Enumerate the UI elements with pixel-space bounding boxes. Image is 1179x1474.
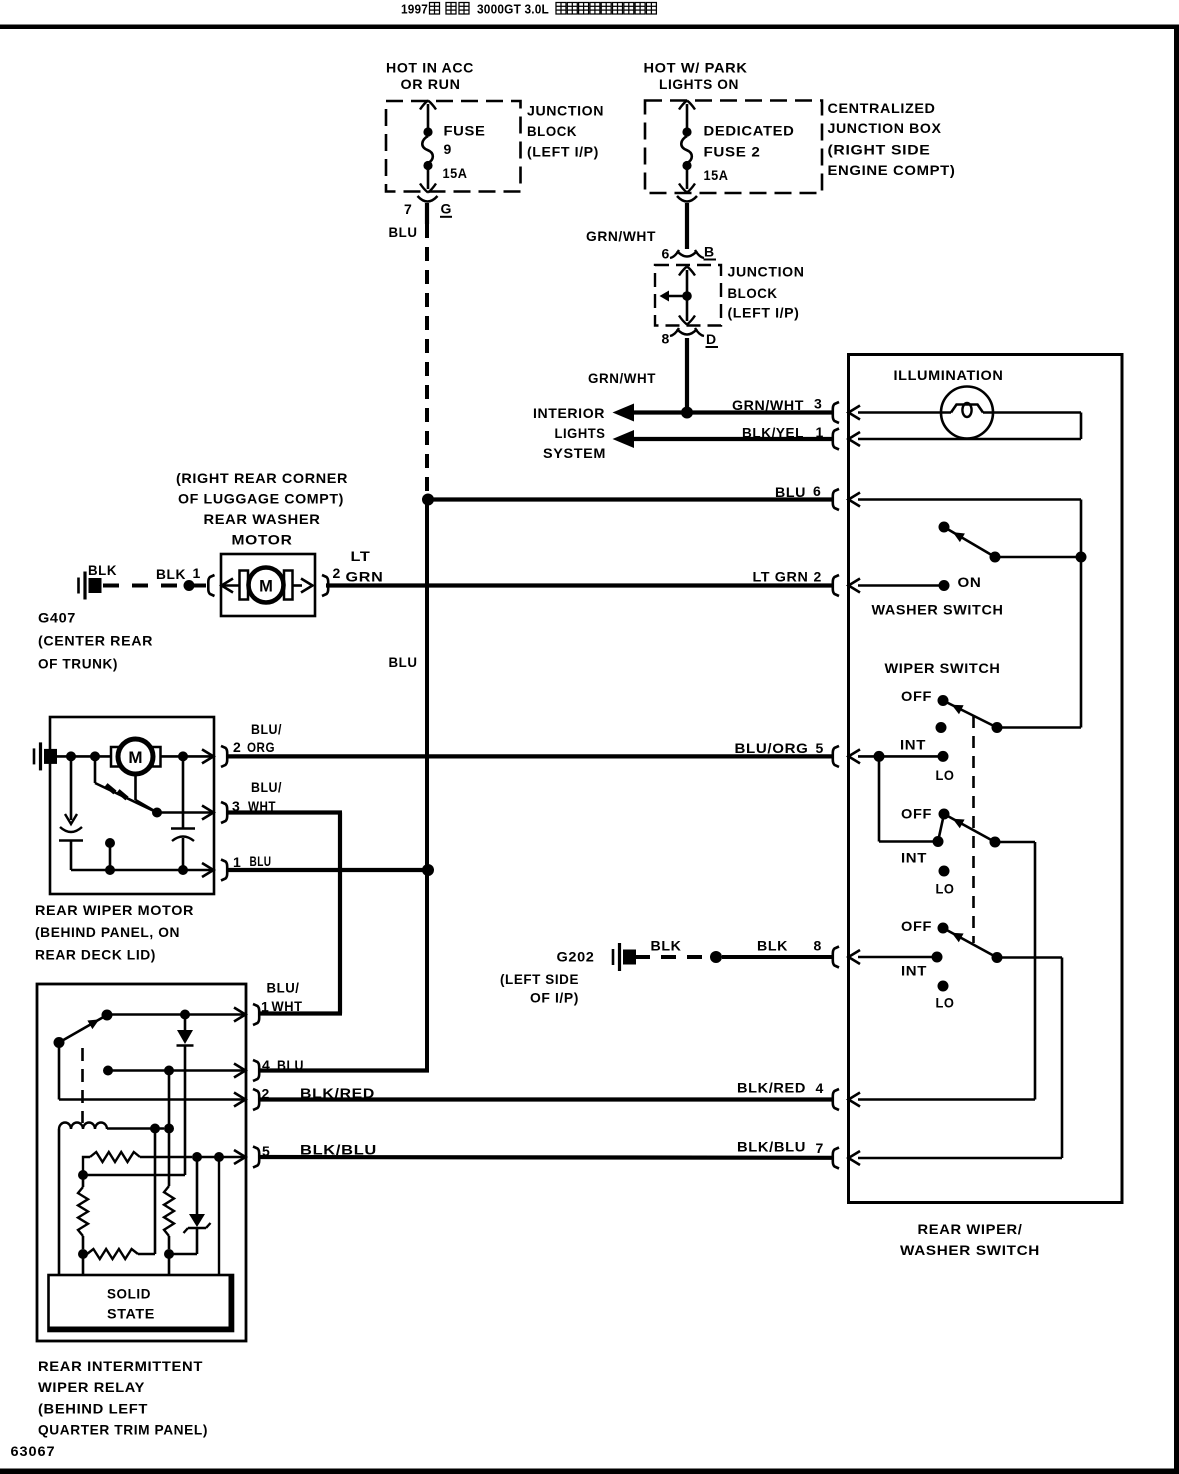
label MOTOR — [232, 532, 293, 548]
svg-text:INT: INT — [900, 737, 926, 753]
svg-text:BLK/RED: BLK/RED — [737, 1080, 806, 1096]
svg-text:BLU: BLU — [250, 853, 272, 869]
label LEFT SIDE — [500, 971, 579, 987]
wire pin 7 internal — [858, 1157, 1062, 1160]
wire gang2 common lead — [995, 841, 1035, 844]
svg-text:ILLUMINATION: ILLUMINATION — [894, 367, 1004, 383]
node gang2 common — [990, 837, 1001, 848]
label WIPER RELAY — [38, 1379, 145, 1395]
rear wiper motor box — [50, 717, 214, 894]
wire gang1 common lead — [997, 726, 1081, 729]
label ENGINE COMPT — [828, 162, 956, 178]
label terminal B — [704, 244, 717, 260]
wiper switch gang 1 lever — [943, 701, 997, 728]
label LIGHTS — [555, 425, 606, 441]
node coil right 2 — [164, 1124, 174, 1134]
label GRN/WHT upper — [586, 228, 656, 244]
svg-text:3000GT 3.0L: 3000GT 3.0L — [477, 2, 549, 17]
wire pin5 drop horizontal — [879, 840, 938, 843]
wire motor bottom rail — [71, 869, 214, 872]
label INT 3 — [901, 963, 927, 979]
svg-text:MOTOR: MOTOR — [232, 532, 293, 548]
arrow to interior lights 1 — [613, 404, 635, 422]
label OFF 2 — [901, 805, 932, 821]
node R3 bottom — [78, 1249, 88, 1259]
washer motor brushes — [240, 571, 293, 600]
svg-text:JUNCTION BOX: JUNCTION BOX — [828, 120, 942, 136]
lamp ILLUMINATION bulb — [858, 387, 1081, 439]
wire BLK solid stub — [194, 584, 206, 588]
svg-text:REAR DECK LID): REAR DECK LID) — [35, 947, 156, 963]
connector switch pin 5 — [833, 746, 860, 767]
motor right cam contact — [171, 756, 195, 870]
svg-text:LO: LO — [936, 881, 955, 897]
label REAR DECK LID — [35, 947, 156, 963]
connector motor pin 1 — [202, 860, 227, 881]
node washer common — [990, 552, 1001, 563]
washer switch lever — [944, 527, 995, 557]
wire BLU/WHT vertical — [338, 813, 342, 1014]
label CENTER REAR — [38, 633, 153, 649]
label RIGHT REAR CORNER — [176, 470, 348, 486]
diode D1 — [177, 1015, 194, 1176]
node washer bus junction — [1076, 552, 1087, 563]
wire R3 to solid state — [82, 1254, 85, 1275]
label OFF 1 — [901, 688, 932, 704]
fuse dedicated fuse 2 15A — [679, 101, 695, 193]
wire BLK dashed G407 — [103, 584, 184, 588]
wire coil tap vertical — [154, 1129, 157, 1255]
wire relay pin1 internal — [107, 1013, 245, 1016]
label BLU/ORG 5 — [735, 740, 824, 756]
node gang2 INT — [933, 836, 944, 847]
wire LT GRN — [326, 583, 833, 587]
svg-text:G407: G407 — [38, 610, 76, 626]
label WASHER SWITCH 2 — [900, 1242, 1040, 1258]
svg-text:DEDICATED: DEDICATED — [704, 123, 795, 139]
wire washer bus lower — [1080, 557, 1083, 728]
label JUNCTION 2 — [728, 263, 805, 279]
svg-text:2: 2 — [814, 569, 822, 585]
svg-text:REAR WIPER/: REAR WIPER/ — [918, 1221, 1023, 1237]
wire relay pivot drop — [58, 1043, 61, 1100]
svg-text:ON: ON — [958, 574, 982, 590]
svg-text:REAR INTERMITTENT: REAR INTERMITTENT — [38, 1358, 203, 1374]
node relay pin4 left — [103, 1066, 113, 1076]
wire BLU/WHT relay segment — [258, 1011, 342, 1015]
label JUNCTION BOX — [828, 120, 942, 136]
svg-text:BLK: BLK — [757, 938, 788, 954]
svg-text:QUARTER TRIM PANEL): QUARTER TRIM PANEL) — [38, 1422, 208, 1438]
resistor R2 vertical — [164, 1129, 174, 1250]
node gang1 common — [992, 722, 1003, 733]
label BLU 6 — [775, 483, 821, 500]
label STATE — [107, 1306, 155, 1322]
svg-text:INT: INT — [901, 963, 927, 979]
svg-text:G: G — [441, 201, 453, 217]
wire BLK/RED — [258, 1097, 833, 1101]
label SYSTEM — [543, 445, 606, 461]
connector relay pin 1 — [234, 1004, 259, 1025]
connector motor pin 3 — [202, 802, 227, 823]
connector switch pin 2 — [833, 575, 860, 596]
connector G below fuse 1 — [418, 196, 438, 202]
zener diode D2 — [184, 1157, 211, 1254]
svg-text:FUSE: FUSE — [444, 123, 486, 139]
svg-text:FUSE 2: FUSE 2 — [704, 143, 761, 159]
label OF LUGGAGE COMPT — [178, 491, 344, 507]
svg-text:BLU/: BLU/ — [251, 779, 282, 795]
wire BLU solid stub below fuse 1 — [425, 203, 429, 224]
svg-text:LIGHTS: LIGHTS — [555, 425, 606, 441]
wire washer common — [999, 556, 1081, 559]
label BEHIND LEFT — [38, 1401, 148, 1417]
label 15A right — [704, 167, 729, 183]
wire pin5 drop — [878, 756, 881, 841]
wire BLK 8 — [722, 955, 833, 959]
label BLU/ORG motor — [233, 721, 282, 755]
junction block 2 internal arrows and tap — [660, 267, 696, 325]
label GRN/WHT 3 — [732, 396, 822, 413]
svg-text:(RIGHT REAR CORNER: (RIGHT REAR CORNER — [176, 470, 348, 486]
border frame bottom bar — [0, 1469, 1179, 1474]
wire BLK/YEL 1 feed — [632, 437, 833, 441]
svg-text:HOT IN ACC: HOT IN ACC — [386, 60, 474, 76]
junction block 1 dashed box — [386, 101, 521, 192]
border frame right bar — [1174, 25, 1179, 1474]
svg-text:3: 3 — [814, 396, 822, 412]
label JUNCTION — [527, 103, 604, 119]
motor left cam contact — [59, 756, 83, 870]
label BLOCK 2 — [728, 285, 778, 301]
svg-text:BLK: BLK — [156, 566, 186, 582]
svg-text:JUNCTION: JUNCTION — [527, 103, 604, 119]
label OFF 3 — [901, 918, 932, 934]
svg-text:WASHER SWITCH: WASHER SWITCH — [900, 1242, 1040, 1258]
label LO 2 — [936, 881, 955, 897]
label HOT W/ PARK — [644, 60, 748, 76]
svg-text:SYSTEM: SYSTEM — [543, 445, 606, 461]
label ON — [958, 574, 982, 590]
svg-text:OFF: OFF — [901, 688, 932, 704]
label 15A — [443, 165, 468, 181]
motor park lever — [95, 783, 157, 813]
node gang3 common — [992, 952, 1003, 963]
connector D — [670, 328, 704, 336]
label LIGHTS ON — [659, 76, 739, 92]
relay lever — [59, 1015, 107, 1043]
park contact stub — [105, 838, 115, 870]
wire gang3 drop — [1061, 958, 1064, 1159]
node pin5 tap — [214, 1152, 224, 1162]
label LT GRN 2 right — [753, 569, 822, 585]
node rail dot 1 — [105, 865, 115, 875]
svg-text:(LEFT SIDE: (LEFT SIDE — [500, 971, 579, 987]
node GRN/WHT junction — [681, 407, 693, 419]
label pin 8 — [662, 331, 670, 347]
svg-text:M: M — [259, 578, 273, 596]
resistor R3 left vertical — [78, 1175, 88, 1249]
label BLU mid — [389, 654, 418, 670]
svg-text:INT: INT — [901, 850, 927, 866]
svg-text:LO: LO — [936, 767, 955, 783]
label G202 — [557, 949, 595, 965]
centralized junction box dashed box — [645, 101, 822, 194]
svg-text:BLU/: BLU/ — [251, 721, 282, 737]
wire lamp return to pin 1 — [858, 438, 1081, 441]
svg-text:ORG: ORG — [247, 739, 275, 755]
border frame top bar — [0, 25, 1179, 30]
label terminal D — [706, 331, 719, 347]
node zener top — [192, 1152, 202, 1162]
ground G202 — [613, 943, 636, 971]
node motor feed 1 — [66, 751, 76, 761]
wire pin4 to coil — [168, 1071, 171, 1129]
label 63067 — [11, 1443, 56, 1459]
label OF I/P — [530, 990, 579, 1006]
wire park to pin3 — [157, 811, 214, 814]
node gang3 INT — [932, 952, 943, 963]
svg-text:1: 1 — [193, 565, 201, 581]
connector relay pin 2 — [234, 1089, 259, 1110]
svg-text:7: 7 — [816, 1140, 824, 1156]
node BLK junction — [710, 951, 722, 963]
svg-text:(LEFT I/P): (LEFT I/P) — [728, 305, 800, 321]
title text 1997 Mitsubishi 3000GT rear wiper/washer diagram — [401, 2, 656, 17]
label pin 7 — [404, 201, 412, 217]
svg-text:LO: LO — [936, 995, 955, 1011]
svg-text:LT: LT — [351, 548, 371, 564]
label SOLID — [107, 1286, 151, 1302]
label BLU/WHT motor — [232, 779, 282, 814]
node BLK G407 junction — [184, 580, 195, 591]
label WASHER SWITCH — [872, 602, 1004, 618]
label FUSE — [444, 123, 486, 139]
svg-text:OF I/P): OF I/P) — [530, 990, 579, 1006]
label RIGHT SIDE — [828, 142, 931, 158]
label BEHIND PANEL ON — [35, 924, 180, 940]
svg-text:63067: 63067 — [11, 1443, 56, 1459]
svg-text:BLU/: BLU/ — [267, 980, 300, 996]
connector B — [670, 250, 704, 258]
ground wiper motor — [34, 742, 57, 770]
label INT 2 — [901, 850, 927, 866]
svg-text:BLOCK: BLOCK — [728, 285, 778, 301]
svg-text:2: 2 — [233, 739, 241, 755]
junction block 2 dashed box — [655, 265, 721, 326]
wire zener bottom — [169, 1253, 197, 1256]
svg-text:1997: 1997 — [401, 2, 428, 17]
svg-text:BLK/BLU: BLK/BLU — [737, 1139, 806, 1155]
svg-text:B: B — [704, 244, 715, 260]
label INT 1 — [900, 737, 926, 753]
svg-text:WASHER SWITCH: WASHER SWITCH — [872, 602, 1004, 618]
label QUARTER TRIM PANEL — [38, 1422, 208, 1438]
rear wiper/washer switch box — [849, 355, 1123, 1203]
connector switch pin 8 — [833, 947, 860, 968]
label 2 LT GRN — [333, 548, 384, 585]
connector relay pin 4 — [234, 1060, 259, 1081]
label BLK dash — [88, 562, 117, 578]
node BLU junction upper — [422, 494, 434, 506]
arrow to interior lights 2 — [613, 430, 635, 448]
svg-text:GRN/WHT: GRN/WHT — [588, 370, 656, 386]
label INTERIOR — [533, 405, 605, 421]
svg-text:4: 4 — [816, 1080, 824, 1096]
node gang3 OFF — [938, 923, 949, 934]
svg-text:LIGHTS ON: LIGHTS ON — [659, 76, 739, 92]
svg-text:BLU: BLU — [389, 224, 418, 240]
wire gang2 drop — [1034, 842, 1037, 1100]
wire BLK/BLU — [258, 1155, 833, 1160]
svg-text:15A: 15A — [704, 167, 729, 183]
wire BLK dashed from G202 — [635, 955, 711, 959]
svg-text:8: 8 — [814, 938, 822, 954]
wiper motor M circle — [118, 739, 153, 774]
node washer ON contact — [939, 580, 950, 591]
label BLK left — [651, 938, 682, 954]
svg-text:ENGINE COMPT): ENGINE COMPT) — [828, 162, 956, 178]
svg-text:GRN/WHT: GRN/WHT — [732, 397, 804, 413]
label G407 — [38, 610, 76, 626]
label BLU upper — [389, 224, 418, 240]
connector below fuse 2 — [677, 196, 697, 202]
motor bottom lead — [136, 774, 158, 813]
connector switch pin 3 — [833, 402, 860, 423]
label LO 3 — [936, 995, 955, 1011]
wiper switch linkage dashed — [972, 716, 975, 943]
wire BLU 6 — [432, 497, 833, 501]
svg-text:8: 8 — [662, 331, 670, 347]
svg-text:LT GRN: LT GRN — [753, 569, 809, 585]
wire washer bus upper — [1080, 500, 1083, 558]
wire R2 to solid state — [168, 1254, 171, 1275]
node coil right 1 — [150, 1124, 160, 1134]
wiper switch gang 2 lever — [944, 814, 995, 842]
svg-text:G202: G202 — [557, 949, 595, 965]
node relay pin4 mid — [164, 1066, 174, 1076]
fuse F9 15A — [420, 101, 436, 193]
label FUSE 2 — [704, 143, 761, 159]
wire 4 BLU relay segment — [258, 1068, 429, 1072]
connector relay pin 5 — [234, 1147, 259, 1168]
connector motor pin 2 — [202, 746, 227, 767]
label LEFT I/P — [527, 144, 599, 160]
svg-text:5: 5 — [816, 740, 824, 756]
node R2 bottom — [164, 1249, 174, 1259]
wire pin5 tap down — [218, 1157, 220, 1275]
svg-text:1: 1 — [233, 854, 241, 870]
wire mid horizontal — [83, 1174, 185, 1177]
node relay diode tap — [180, 1010, 190, 1020]
label BLK/BLU 7 — [737, 1139, 824, 1157]
label LO 1 — [936, 767, 955, 783]
svg-text:OF TRUNK): OF TRUNK) — [38, 656, 118, 672]
resistor R4 lower horizontal — [87, 1249, 155, 1259]
wire pin 4 internal — [858, 1098, 1035, 1101]
svg-text:OR RUN: OR RUN — [401, 76, 461, 92]
node park lever end — [152, 808, 162, 818]
label ILLUMINATION — [894, 367, 1004, 383]
svg-text:BLK/YEL: BLK/YEL — [742, 425, 804, 441]
node R1 left bottom — [78, 1170, 88, 1180]
solid state box — [49, 1275, 234, 1331]
node relay lever top — [102, 1010, 113, 1021]
label REAR WASHER — [204, 511, 321, 527]
label 9 — [444, 141, 452, 157]
label WIPER SWITCH — [885, 660, 1001, 676]
connector switch pin 7 — [833, 1148, 860, 1169]
label BLU/ WHT relay — [261, 980, 303, 1015]
svg-text:OFF: OFF — [901, 918, 932, 934]
wire lamp right drop — [1080, 413, 1083, 440]
motor park stub — [94, 756, 97, 783]
label HOT IN ACC — [386, 60, 474, 76]
label BLK 8 — [757, 938, 822, 954]
svg-text:BLU: BLU — [389, 654, 418, 670]
svg-text:(RIGHT SIDE: (RIGHT SIDE — [828, 142, 931, 158]
wire pin 8 internal — [858, 956, 937, 959]
wire BLU dashed drop — [425, 224, 429, 492]
label REAR WIPER/ — [918, 1221, 1023, 1237]
label terminal G — [440, 201, 452, 217]
wire pin 2 internal — [858, 584, 944, 587]
connector switch pin 4 — [833, 1089, 860, 1110]
label CENTRALIZED — [828, 100, 936, 116]
wire pin 5 internal — [858, 755, 943, 758]
wire pin 6 internal — [858, 498, 1081, 501]
svg-text:(BEHIND LEFT: (BEHIND LEFT — [38, 1401, 148, 1417]
wire relay pin4 internal — [108, 1069, 245, 1072]
washer motor connector right — [293, 575, 329, 596]
svg-text:REAR WIPER MOTOR: REAR WIPER MOTOR — [35, 902, 194, 918]
wire motor BLU pin1 — [226, 868, 430, 872]
label OF TRUNK — [38, 656, 118, 672]
relay linkage dashed — [81, 1048, 84, 1123]
wire GRN/WHT lower vertical — [685, 338, 689, 413]
svg-text:1: 1 — [816, 424, 824, 440]
node motor feed 2 — [90, 751, 100, 761]
svg-text:JUNCTION: JUNCTION — [728, 263, 805, 279]
svg-text:BLU: BLU — [775, 484, 806, 500]
ground G407 — [79, 572, 102, 600]
svg-text:GRN/WHT: GRN/WHT — [586, 228, 656, 244]
label BLK/YEL 1 — [742, 424, 824, 441]
label REAR INTERMITTENT — [38, 1358, 203, 1374]
label 2 BLK/RED relay — [262, 1085, 376, 1102]
node gang3 LO — [938, 981, 949, 992]
svg-text:HOT W/ PARK: HOT W/ PARK — [644, 60, 748, 76]
svg-text:OFF: OFF — [901, 805, 932, 821]
svg-text:GRN: GRN — [346, 569, 384, 585]
washer motor M circle — [249, 568, 284, 603]
svg-text:SOLID: SOLID — [107, 1286, 151, 1302]
node motor right — [178, 751, 188, 761]
svg-text:BLU/ORG: BLU/ORG — [735, 740, 809, 756]
connector switch pin 6 — [833, 489, 860, 510]
label BLK 1 — [156, 565, 201, 582]
wiper motor brushes — [111, 747, 161, 767]
label LEFT I/P 2 — [728, 305, 800, 321]
connector switch pin 1 — [833, 429, 860, 450]
svg-text:D: D — [706, 331, 717, 347]
wire gang2 INT to OFF stub — [938, 814, 944, 842]
wire motor feed — [57, 755, 111, 758]
node washer pivot — [939, 522, 950, 533]
label 5 BLK/BLU relay — [262, 1142, 377, 1160]
svg-text:OF LUGGAGE COMPT): OF LUGGAGE COMPT) — [178, 491, 344, 507]
wire GRN/WHT 3 feed — [632, 410, 833, 414]
